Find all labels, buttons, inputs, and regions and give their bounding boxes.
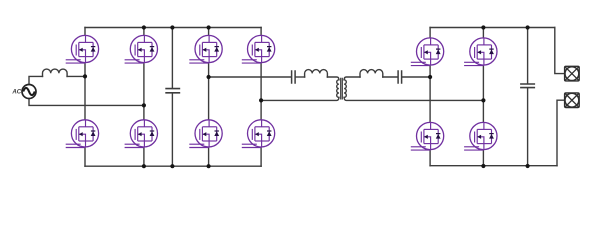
svg-text:AC: AC	[11, 89, 21, 96]
wire transformer secondary top to L3	[344, 77, 360, 80]
MOSFET Q9 (bridge3 top-left)	[411, 38, 444, 66]
wire bridge2 top output	[209, 76, 292, 78]
wire C3 to bridge3 left midpoint	[402, 76, 430, 78]
wire AC source bottom lead	[29, 98, 144, 105]
wire bridge2 bottom output to transformer primary bottom	[261, 97, 339, 100]
wire leg2	[143, 28, 145, 167]
capacitor C4 output plates	[521, 84, 534, 88]
MOSFET Q3 (bridge1 bottom-left)	[66, 120, 99, 148]
node leg6 midpoint	[481, 98, 485, 102]
wire bottom rail bridge1-2	[85, 165, 261, 167]
inductor L2	[305, 70, 328, 77]
node leg3 midpoint	[207, 75, 211, 79]
transformer T1 primary winding	[337, 80, 339, 98]
MOSFET Q12 (bridge3 bottom-right)	[464, 122, 497, 150]
node leg4 midpoint	[259, 98, 263, 102]
node bottom rail at C1	[170, 164, 174, 168]
MOSFET Q2 (bridge1 top-right)	[125, 35, 158, 63]
wire transformer secondary bottom to bridge3 right midpoint	[344, 97, 483, 100]
wire DC-link cap branch bottom	[171, 93, 173, 166]
wire AC source top lead	[29, 76, 43, 84]
MOSFET Q11 (bridge3 bottom-left)	[411, 122, 444, 150]
wire bottom rail bridge3	[430, 165, 557, 167]
node leg5 midpoint	[428, 75, 432, 79]
wire leg4	[260, 28, 262, 167]
inductor L3	[360, 70, 383, 77]
MOSFET Q10 (bridge3 top-right)	[464, 38, 497, 66]
wire to terminal 1	[555, 28, 564, 74]
MOSFET Q1 (bridge1 top-left)	[66, 35, 99, 63]
MOSFET Q7 (bridge2 bottom-left)	[189, 120, 222, 148]
wire leg5	[429, 28, 431, 166]
output terminal X1	[565, 66, 580, 81]
node top rail at C1	[170, 25, 174, 29]
node top rail bridge3 at C4	[526, 25, 530, 29]
node bottom rail bridge3 at C4	[526, 164, 530, 168]
node bottom rail at leg2	[142, 164, 146, 168]
node leg2 midpoint	[142, 103, 146, 107]
transformer T1 core	[341, 78, 343, 99]
MOSFET Q8 (bridge2 bottom-right)	[242, 120, 275, 148]
AC source V1	[22, 85, 36, 99]
wire C2 to L2	[295, 76, 304, 78]
node leg1 midpoint	[83, 74, 87, 78]
wire L2 to transformer primary top	[327, 77, 339, 80]
MOSFET Q4 (bridge1 bottom-right)	[125, 120, 158, 148]
transformer T1 secondary winding	[344, 80, 346, 98]
node bottom rail bridge3 at leg6	[481, 164, 485, 168]
output terminal X2	[565, 93, 580, 108]
wire DC-link cap branch top	[171, 28, 173, 89]
wire output cap branch bottom	[527, 88, 529, 166]
MOSFET Q5 (bridge2 top-left)	[189, 35, 222, 63]
node top rail at leg2	[142, 25, 146, 29]
MOSFET Q6 (bridge2 top-right)	[242, 35, 275, 63]
node top rail bridge3 at leg6	[481, 25, 485, 29]
capacitor C2 series primary	[292, 71, 296, 83]
node top rail at leg3	[207, 25, 211, 29]
wire L1 to node A	[67, 75, 85, 77]
wire leg1	[84, 28, 86, 167]
wire top rail bridge3	[430, 27, 555, 29]
wire output cap branch top	[527, 28, 529, 84]
wire top rail bridge1-2	[85, 27, 261, 29]
wire leg6	[482, 28, 484, 166]
wire leg3	[208, 28, 210, 167]
wire terminal 2 to bottom rail	[557, 100, 564, 166]
capacitor C1 DC-link plates	[166, 89, 179, 93]
capacitor C3 series secondary	[398, 71, 402, 83]
node bottom rail at leg3	[207, 164, 211, 168]
inductor L1	[43, 69, 68, 76]
wire L3 to C3	[383, 76, 398, 78]
